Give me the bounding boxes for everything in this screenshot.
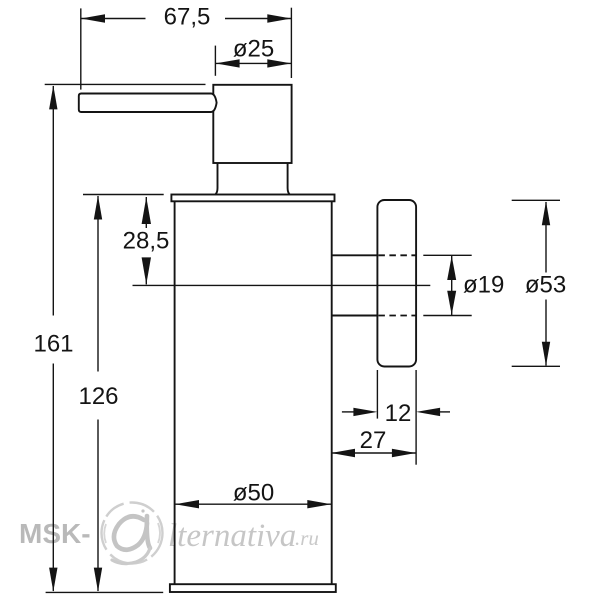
svg-text:MSK-: MSK- [19,518,91,549]
svg-text:lternativa: lternativa [168,518,296,554]
svg-text:ø53: ø53 [525,272,566,299]
svg-text:ø19: ø19 [463,272,504,299]
svg-text:28,5: 28,5 [123,228,170,255]
svg-text:.ru: .ru [295,526,319,550]
svg-text:126: 126 [78,383,118,410]
svg-text:12: 12 [385,400,412,427]
svg-text:ø50: ø50 [233,480,274,507]
svg-text:27: 27 [360,427,387,454]
svg-text:ø25: ø25 [233,36,274,63]
svg-text:67,5: 67,5 [164,4,211,31]
svg-text:161: 161 [33,331,73,358]
